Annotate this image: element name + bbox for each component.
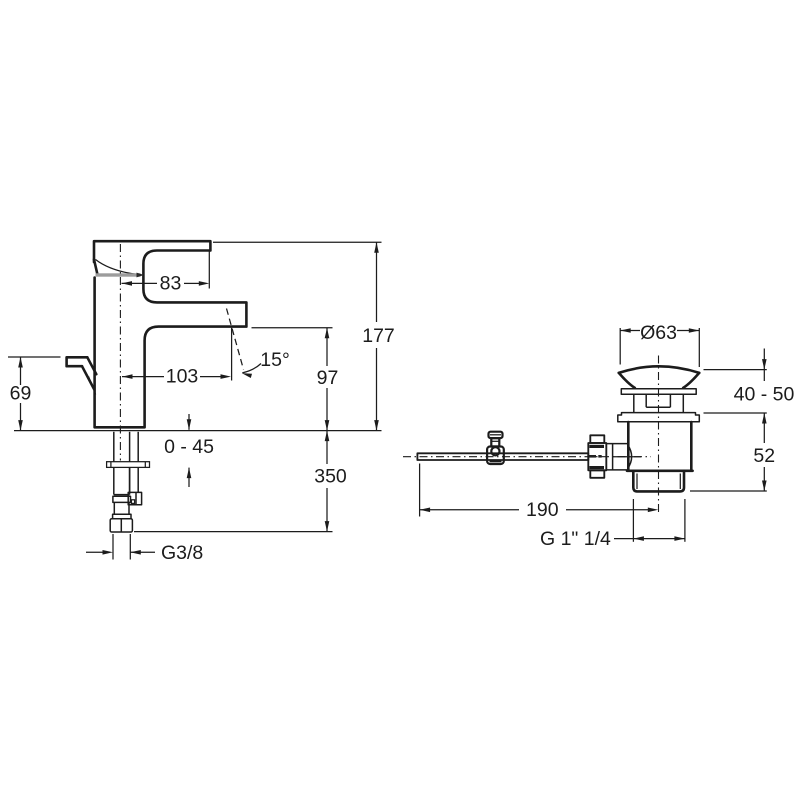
svg-text:0 - 45: 0 - 45 [164, 436, 214, 458]
svg-text:103: 103 [166, 365, 199, 387]
svg-text:97: 97 [317, 367, 339, 389]
svg-text:Ø63: Ø63 [640, 322, 677, 344]
svg-text:52: 52 [753, 445, 775, 467]
svg-text:177: 177 [362, 325, 395, 347]
svg-text:15°: 15° [260, 349, 290, 371]
svg-text:83: 83 [160, 273, 182, 295]
svg-text:G3/8: G3/8 [161, 542, 203, 564]
svg-text:40 - 50: 40 - 50 [734, 383, 795, 405]
svg-text:190: 190 [526, 499, 559, 521]
svg-text:G 1" 1/4: G 1" 1/4 [540, 528, 611, 550]
svg-text:69: 69 [10, 383, 32, 405]
svg-text:350: 350 [314, 466, 347, 488]
